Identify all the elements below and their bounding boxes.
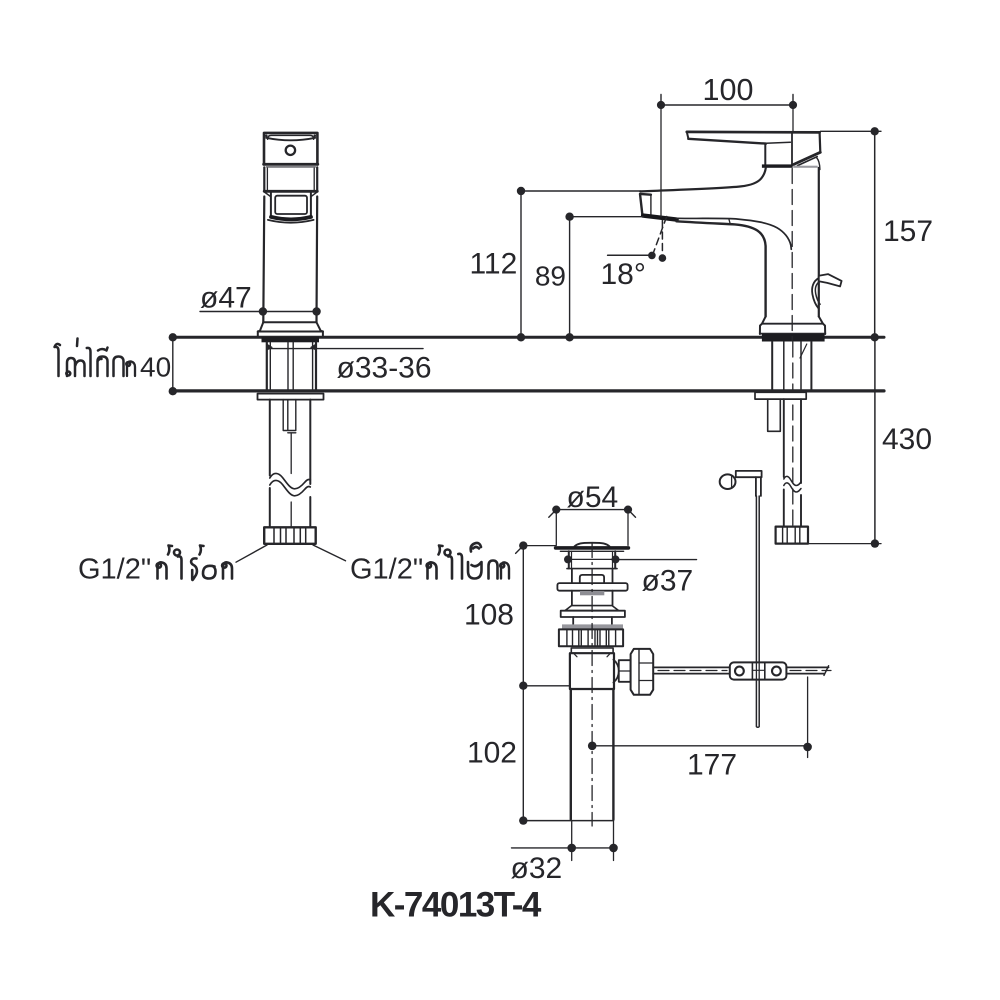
- dim 157 extension: [821, 130, 882, 132]
- tailpipe walls: [571, 689, 614, 820]
- leader line for hole dia: [267, 348, 423, 350]
- shank inner lines: [270, 342, 312, 389]
- lift rod knob hook: [812, 278, 819, 308]
- handle base diagonal: [793, 152, 820, 164]
- svg-text:K-74013T-4: K-74013T-4: [370, 886, 542, 925]
- svg-text:G1/2": G1/2": [78, 554, 151, 586]
- shank through counter: outer walls: [267, 342, 316, 389]
- threaded stud: [283, 400, 296, 433]
- side mounting flange: [755, 392, 806, 399]
- flare bottom line: [760, 333, 825, 335]
- rod end cut: [824, 666, 829, 676]
- 18 deg leader: [608, 254, 651, 256]
- svg-text:89: 89: [535, 261, 566, 292]
- ball joint block: [619, 660, 631, 682]
- bracket hook: [756, 477, 761, 496]
- handle screw hole circle: [286, 146, 295, 155]
- spout top edge: [640, 168, 766, 192]
- drain flange thick bar: [556, 546, 629, 550]
- handle top lens lower arc: [266, 138, 315, 141]
- svg-text:102: 102: [467, 737, 517, 770]
- handle bottom edge: [264, 163, 318, 166]
- side body white fill: [640, 168, 825, 334]
- lever blade underside (thick): [688, 139, 766, 144]
- dim o32: [512, 847, 615, 849]
- rod clamp strap: [730, 662, 787, 679]
- body right edge: [818, 168, 820, 317]
- drain body walls mid: [572, 591, 613, 606]
- joint bar light continuation: [793, 166, 818, 168]
- base plate line: [258, 331, 323, 333]
- drain flange bump: [575, 543, 610, 547]
- pipe break squiggle: [270, 473, 311, 488]
- svg-text:430: 430: [882, 423, 932, 456]
- dim o37 dots: [564, 555, 572, 563]
- drain body walls upper: [572, 569, 613, 583]
- svg-text:112: 112: [469, 248, 517, 281]
- shank slant line: [800, 344, 807, 358]
- side threaded stub: [768, 399, 781, 431]
- countertop top surface line: [173, 336, 884, 339]
- mid band bottom thick line: [264, 190, 317, 193]
- handle base right edge: [818, 132, 821, 152]
- mounting flange under counter: [258, 394, 324, 400]
- thai: mai kern (not exceeding): [55, 344, 61, 376]
- svg-text:ø33-36: ø33-36: [337, 352, 432, 385]
- supply pipe below flange: [270, 400, 311, 528]
- dim o47: [200, 311, 317, 313]
- spout window outer sides: [270, 193, 272, 217]
- leader to hot water label: [236, 545, 267, 562]
- lift rod top bracket bar: [736, 471, 762, 477]
- locknut with ribs: [559, 629, 623, 646]
- flare trapezoid: [565, 606, 619, 611]
- handle base front vertical: [791, 134, 793, 165]
- 18 deg dashed slant: [653, 217, 667, 254]
- spout tip block: [640, 194, 651, 216]
- spout underside upper curve: [677, 218, 792, 249]
- lift rod vertical: [756, 496, 759, 662]
- horizontal pivot rod: [653, 667, 730, 673]
- flare top line: [762, 323, 823, 325]
- flange bottom line: [560, 550, 623, 552]
- thai: nam ron (hot water): [158, 562, 167, 578]
- clamp screws: [735, 667, 744, 676]
- countertop bottom line: [173, 389, 884, 392]
- spout aerator black bar: [643, 216, 677, 220]
- 18 deg dashed vertical: [661, 221, 663, 254]
- svg-text:ø32: ø32: [511, 852, 563, 885]
- underside tick: [729, 220, 730, 224]
- side shank inner walls: [784, 342, 801, 392]
- dim 177: [592, 745, 807, 747]
- side connection nut: [776, 527, 808, 544]
- step collar under locknut: [571, 648, 613, 653]
- base gasket (black): [262, 337, 320, 342]
- dim 108: [522, 546, 524, 686]
- spout window inner rect: [275, 196, 307, 214]
- lift rod knob (rod): [819, 274, 842, 286]
- faucet F1 handle cap outline: [264, 133, 317, 165]
- faucet centerline (dash-dot): [791, 169, 793, 342]
- svg-text:108: 108: [464, 599, 514, 632]
- drain neck upper: [569, 551, 615, 568]
- wide slip washer bar: [557, 583, 627, 591]
- dim 89: [569, 217, 571, 338]
- o37 leader: [616, 559, 697, 561]
- shaded band atop locknut: [562, 624, 623, 629]
- neck bottom line: [567, 568, 617, 570]
- dim 112: [520, 191, 522, 337]
- pipe center line: [290, 433, 292, 527]
- dim 100 extension lines: [660, 105, 662, 217]
- faucet F1 body sides: [263, 197, 264, 323]
- side base gasket (black): [762, 334, 825, 341]
- countertop thickness dimension line (left end): [172, 337, 174, 391]
- handle underside shadow line: [267, 166, 316, 168]
- lever tip edge: [687, 132, 689, 138]
- leader to cold water label: [313, 545, 346, 561]
- svg-text:18°: 18°: [601, 258, 646, 291]
- body/base ledge line: [263, 321, 316, 323]
- overflow small box: [580, 575, 604, 583]
- dim 157 line: [874, 131, 876, 337]
- pipe bottom / dim line: [523, 820, 613, 822]
- svg-text:ø47: ø47: [200, 282, 252, 315]
- drain tee body: [570, 653, 614, 689]
- base flare: [258, 322, 323, 337]
- lever blade top edge: [687, 131, 820, 134]
- aerator dark band: [271, 217, 311, 220]
- drain centerline dash-dot: [591, 543, 593, 827]
- svg-text:157: 157: [883, 215, 933, 248]
- hole edge arrows: [267, 344, 273, 351]
- handle joint dark bar: [762, 164, 793, 167]
- dim o54: [556, 509, 628, 511]
- hose connection nut G1/2: [264, 527, 316, 544]
- svg-text:G1/2": G1/2": [350, 554, 423, 586]
- side supply pipe: [784, 399, 801, 526]
- drain body walls below washer2: [573, 617, 612, 624]
- ball joint bump: [613, 660, 618, 683]
- handle top lens upper line: [268, 135, 314, 139]
- svg-text:177: 177: [687, 749, 737, 782]
- dim 102: [522, 686, 524, 821]
- svg-text:100: 100: [703, 73, 754, 107]
- handle cap corner marks: [265, 135, 268, 138]
- side shank outer walls: [772, 342, 811, 390]
- tee chamfer ticks: [574, 653, 611, 657]
- mid band inner verticals: [266, 168, 268, 190]
- svg-text:ø54: ø54: [567, 481, 619, 514]
- chamfer corners to spout window: [264, 192, 271, 197]
- faucet F1 mid band sides: [263, 167, 265, 191]
- pivot hex nut: [631, 649, 654, 695]
- aerator underside arc: [268, 220, 314, 223]
- dim 430 bottom extension: [808, 543, 881, 545]
- dim 430 line: [874, 337, 876, 543]
- washer bar 2: [561, 611, 625, 617]
- side pipe break squiggle: [784, 476, 801, 485]
- dim 100 line: [661, 104, 793, 106]
- handle stem front edge: [764, 144, 766, 165]
- lift rod knob ball: [720, 474, 736, 489]
- thai: nam yen (cold water): [428, 562, 437, 578]
- handle base rear small arc: [817, 158, 820, 170]
- lever underside thin continuation: [766, 142, 790, 143]
- svg-text:40: 40: [140, 351, 171, 382]
- side base flare: [760, 317, 825, 335]
- svg-text:ø37: ø37: [642, 565, 694, 598]
- shaded seal under washer: [580, 591, 604, 595]
- spout underside lower curve / body left edge: [677, 221, 766, 316]
